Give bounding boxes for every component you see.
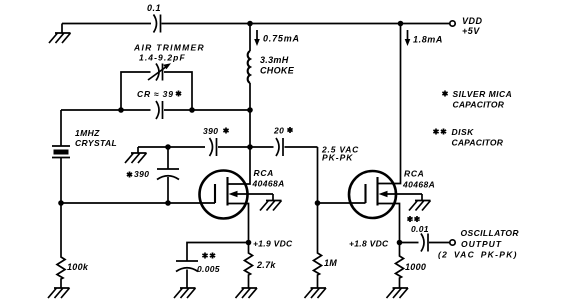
- svg-text:40468A: 40468A: [252, 179, 285, 189]
- ground G8 under 100k: [48, 288, 70, 298]
- svg-text:CR ≈ 39: CR ≈ 39: [137, 89, 174, 99]
- ground G3 Q1 substrate: [260, 194, 282, 211]
- ground G1 top-left: [49, 24, 71, 44]
- node junction source-1.8: [397, 240, 403, 246]
- svg-text:PK-PK: PK-PK: [322, 153, 353, 163]
- svg-text:RCA: RCA: [404, 169, 425, 179]
- wire crystal column: [60, 110, 62, 203]
- svg-text:1000: 1000: [405, 262, 426, 272]
- svg-text:390: 390: [134, 169, 149, 179]
- node junction choke-feedback: [247, 107, 253, 113]
- capacitor C6 0.005: [176, 261, 198, 288]
- svg-text:1MHZ: 1MHZ: [75, 128, 100, 138]
- wire Q2 drain lead: [378, 24, 401, 184]
- node junction loop-right: [189, 107, 195, 113]
- ground G4 Q2 substrate: [409, 194, 431, 211]
- svg-text:0.005: 0.005: [197, 264, 220, 274]
- ground G7 under 1000: [387, 288, 409, 298]
- svg-text:SILVER MICA: SILVER MICA: [453, 89, 513, 99]
- node junction c390-gate: [165, 200, 171, 206]
- node junction loop-left: [118, 107, 124, 113]
- wire output branch: [400, 242, 451, 244]
- label *390: [127, 172, 132, 178]
- capacitor C7 0.01: [421, 234, 428, 252]
- svg-text:20: 20: [273, 126, 284, 136]
- svg-text:3.3mH: 3.3mH: [260, 55, 289, 65]
- transistor Q1 RCA 40468A: [200, 171, 248, 219]
- svg-text:CAPACITOR: CAPACITOR: [452, 138, 504, 148]
- capacitor C5 390 shunt: [157, 169, 179, 180]
- wire top rail VDD y=23.5: [62, 23, 450, 25]
- node junction top-choke: [247, 21, 253, 27]
- svg-text:0.01: 0.01: [411, 224, 429, 234]
- node junction rail-c390: [165, 144, 171, 150]
- node junction rail-drain: [247, 144, 253, 150]
- svg-text:+5V: +5V: [462, 26, 480, 36]
- label ** 0.005: [202, 253, 215, 259]
- svg-text:RCA: RCA: [254, 168, 275, 178]
- svg-text:DISK: DISK: [452, 127, 475, 137]
- node junction crystal-gate: [58, 200, 64, 206]
- ground G9 under 1M: [305, 288, 327, 298]
- svg-text:+1.9 VDC: +1.9 VDC: [253, 239, 293, 249]
- wire choke column: [249, 24, 251, 148]
- arrow trimmer: [148, 67, 167, 81]
- crystal Y1 1MHz: [52, 146, 70, 158]
- wire Q2 source lead: [378, 204, 400, 243]
- svg-text:CHOKE: CHOKE: [260, 66, 295, 76]
- label ** 0.01: [407, 216, 419, 222]
- svg-text:OSCILLATOR: OSCILLATOR: [461, 228, 520, 238]
- capacitor C2 air trimmer: [156, 64, 163, 81]
- node junction source-1.9: [246, 240, 252, 246]
- wire interstage rail y=147: [138, 146, 318, 148]
- svg-text:(2 VAC PK-PK): (2 VAC PK-PK): [438, 250, 518, 260]
- node junction top-Q2drain: [398, 21, 404, 27]
- note disk: [433, 129, 446, 135]
- arrow current 1.8mA: [407, 30, 409, 40]
- svg-text:2.7k: 2.7k: [256, 260, 276, 270]
- wire c390 branch: [167, 147, 169, 203]
- svg-text:VDD: VDD: [462, 16, 483, 26]
- svg-text:1.8mA: 1.8mA: [413, 35, 443, 45]
- svg-text:0.75mA: 0.75mA: [263, 34, 300, 44]
- node junction gate2: [315, 200, 321, 206]
- ground G2 left of rail: [125, 147, 147, 163]
- svg-text:100k: 100k: [67, 262, 89, 272]
- capacitor C4 20: [276, 138, 283, 156]
- inductor L1 3.3mH choke: [248, 51, 250, 83]
- svg-text:1M: 1M: [324, 258, 337, 268]
- wire gate line Q1 y=203: [61, 202, 215, 204]
- wire Q2 substrate lead: [382, 193, 422, 195]
- wire bypass branch: [187, 243, 249, 262]
- ground G5 under 0.005: [174, 288, 196, 298]
- resistor R4 1000: [396, 243, 404, 289]
- svg-text:AIR TRIMMER: AIR TRIMMER: [133, 43, 205, 53]
- svg-text:40468A: 40468A: [402, 180, 435, 190]
- wire Q1 source lead: [228, 204, 249, 243]
- terminal VDD: [450, 21, 455, 26]
- wire feedback rail y=110: [61, 109, 250, 111]
- note silver mica: [442, 91, 447, 97]
- svg-text:CAPACITOR: CAPACITOR: [453, 100, 505, 110]
- ground G6 under 2.7k: [236, 288, 258, 298]
- arrow current 0.75mA: [256, 30, 258, 40]
- svg-text:1.4-9.2pF: 1.4-9.2pF: [139, 53, 186, 63]
- svg-text:OUTPUT: OUTPUT: [461, 239, 502, 249]
- svg-text:0.1: 0.1: [147, 3, 161, 13]
- capacitor C3 390: [210, 138, 217, 156]
- wire Q1 drain lead: [228, 147, 251, 184]
- capacitor C1 0.1: [154, 15, 161, 33]
- capacitor CR 39pF: [156, 101, 163, 119]
- star CR: [176, 91, 181, 97]
- transistor Q2 RCA 40468A: [349, 171, 396, 218]
- wire Q1 substrate lead: [232, 193, 273, 195]
- resistor R1 100k: [57, 203, 65, 288]
- wire trimmer loop: [121, 72, 192, 110]
- svg-text:CRYSTAL: CRYSTAL: [75, 138, 117, 148]
- svg-text:390: 390: [203, 126, 218, 136]
- svg-text:+1.8 VDC: +1.8 VDC: [349, 239, 389, 249]
- terminal output: [450, 240, 455, 245]
- resistor R3 1M: [314, 203, 322, 288]
- wire Q2 gate column: [318, 147, 366, 203]
- resistor R2 2.7k: [245, 243, 253, 289]
